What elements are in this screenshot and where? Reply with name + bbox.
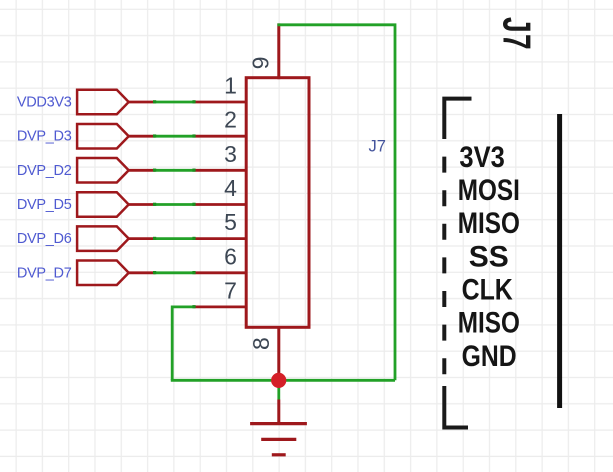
svg-text:9: 9 bbox=[248, 57, 274, 70]
svg-text:4: 4 bbox=[224, 175, 237, 201]
wire pin1 bbox=[155, 101, 195, 104]
pin 1 stub bbox=[194, 101, 248, 104]
svg-text:5: 5 bbox=[224, 209, 237, 235]
svg-text:DVP_D2: DVP_D2 bbox=[17, 163, 72, 179]
annotation vertical line bbox=[557, 114, 562, 408]
svg-text:3: 3 bbox=[224, 141, 237, 167]
ground bbox=[250, 400, 307, 455]
svg-text:J7: J7 bbox=[494, 17, 538, 51]
pin 6 stub bbox=[194, 271, 248, 274]
pin 8 stem bbox=[277, 326, 280, 380]
svg-text:CLK: CLK bbox=[462, 272, 513, 306]
svg-text:DVP_D5: DVP_D5 bbox=[17, 197, 72, 213]
wire top net bbox=[277, 25, 395, 381]
svg-text:MISO: MISO bbox=[458, 206, 520, 240]
wire pin6 bbox=[155, 271, 195, 274]
net flag DVP_D7 bbox=[77, 261, 129, 286]
svg-text:MISO: MISO bbox=[458, 305, 520, 339]
pin 5 stub bbox=[194, 237, 248, 240]
svg-text:6: 6 bbox=[224, 243, 237, 269]
svg-text:VDD3V3: VDD3V3 bbox=[17, 95, 72, 111]
wire pin7 elbow bbox=[172, 307, 194, 380]
annotation bracket bbox=[444, 99, 471, 139]
net flag DVP_D5 bbox=[77, 192, 129, 217]
net flag VDD3V3 bbox=[77, 90, 129, 115]
wire pin5 bbox=[155, 237, 195, 240]
pin 9 stem bbox=[277, 23, 280, 79]
wire pin3 bbox=[155, 169, 195, 172]
net flag DVP_D2 bbox=[77, 158, 129, 183]
wire pin2 bbox=[155, 135, 195, 138]
wire bottom net bbox=[171, 379, 395, 382]
svg-text:DVP_D7: DVP_D7 bbox=[17, 265, 72, 281]
pin 2 stub bbox=[194, 135, 248, 138]
net flag DVP_D3 bbox=[77, 124, 129, 149]
pin 3 stub bbox=[194, 169, 248, 172]
svg-text:GND: GND bbox=[462, 339, 517, 373]
svg-text:DVP_D6: DVP_D6 bbox=[17, 231, 72, 247]
svg-text:SS: SS bbox=[469, 240, 509, 273]
svg-text:MOSI: MOSI bbox=[458, 173, 520, 207]
pin 4 stub bbox=[194, 203, 248, 206]
pin 7 stub bbox=[194, 305, 248, 308]
svg-text:J7: J7 bbox=[369, 137, 386, 155]
svg-text:DVP_D3: DVP_D3 bbox=[17, 129, 72, 145]
net flag DVP_D6 bbox=[77, 226, 129, 251]
svg-text:7: 7 bbox=[224, 277, 237, 303]
svg-text:8: 8 bbox=[248, 337, 274, 350]
svg-text:3V3: 3V3 bbox=[459, 140, 504, 173]
svg-text:1: 1 bbox=[224, 73, 237, 99]
svg-text:2: 2 bbox=[224, 107, 237, 133]
wire junction to ground bbox=[277, 380, 280, 399]
junction bbox=[271, 373, 286, 388]
wire pin4 bbox=[155, 203, 195, 206]
connector J7 body bbox=[246, 78, 309, 328]
